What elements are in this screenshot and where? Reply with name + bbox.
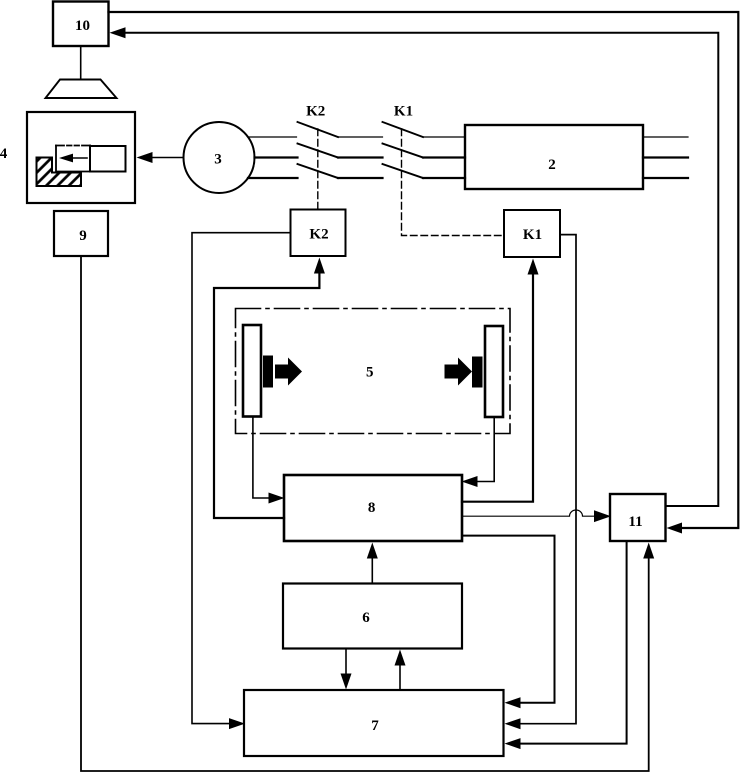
phase line 3 K2 to K1 bbox=[338, 177, 383, 179]
wire block9 to block11 bottom arrow bbox=[81, 256, 649, 771]
left pusher bar bbox=[263, 356, 273, 388]
svg-text:5: 5 bbox=[366, 365, 374, 381]
wire block8 to block7 right input 1 bbox=[462, 536, 555, 703]
phase line 2 motor to K2 bbox=[255, 156, 298, 158]
slide block with dashed top in block 4 bbox=[56, 146, 90, 172]
phase line 3 K1 to block2 bbox=[423, 177, 465, 179]
phase line 3 motor to K2 bbox=[248, 177, 298, 179]
wire block6 to block7 arrow down bbox=[345, 649, 347, 674]
phase line 2 K2 to K1 bbox=[338, 156, 383, 158]
svg-text:K1: K1 bbox=[523, 227, 542, 243]
coil K1 box bbox=[504, 210, 560, 257]
wire block10 output to block11 right input bbox=[109, 12, 739, 528]
wire block8 to coil K1 with arrow bbox=[462, 275, 533, 502]
block 11 bbox=[610, 494, 666, 541]
svg-text:2: 2 bbox=[548, 157, 556, 173]
svg-text:6: 6 bbox=[362, 610, 370, 626]
arrow inside slide block bbox=[71, 157, 87, 159]
hatched fixture in block 4 bbox=[37, 158, 82, 187]
block 7 bbox=[244, 690, 504, 756]
right clamp plate bbox=[485, 326, 503, 417]
block 9 bbox=[54, 211, 108, 256]
wire block11 to block7 right input 3 bbox=[521, 541, 627, 744]
sensor horn trapezoid bbox=[46, 80, 117, 99]
dash-dot workpiece frame 5 bbox=[236, 309, 511, 434]
wire motor3 to block4 with arrow bbox=[153, 157, 184, 159]
dashed link K1 switch to coil bbox=[402, 129, 505, 236]
left thick arrow bbox=[275, 358, 302, 386]
wire left plate to block8 with arrow bbox=[253, 417, 269, 498]
block 6 bbox=[283, 584, 462, 649]
wire right plate to block8 with arrow bbox=[478, 417, 495, 482]
block 8 bbox=[284, 475, 462, 541]
svg-text:4: 4 bbox=[0, 146, 8, 162]
wire block7 to block6 arrow up bbox=[399, 666, 401, 691]
contactor K1 blade 1 bbox=[383, 122, 424, 137]
contactor K2 blade 2 bbox=[298, 144, 339, 158]
block 2 bbox=[465, 125, 643, 189]
contactor K1 blade 2 bbox=[383, 144, 424, 158]
supply stub 1 right of block 2 bbox=[643, 136, 688, 138]
wire block6 to block8 arrow up bbox=[371, 558, 373, 584]
wire block10 to sensor horn bbox=[80, 46, 82, 80]
wire coil K2 to block7 left input bbox=[192, 233, 291, 724]
motor circle 3 bbox=[184, 122, 255, 193]
svg-text:10: 10 bbox=[75, 18, 90, 34]
phase line 2 K1 to block2 bbox=[423, 156, 465, 158]
contactor K2 blade 3 bbox=[298, 164, 339, 178]
svg-text:9: 9 bbox=[79, 228, 87, 244]
cylinder block in block 4 bbox=[90, 146, 126, 172]
svg-text:7: 7 bbox=[371, 718, 379, 734]
phase line 1 K2 to K1 bbox=[338, 136, 383, 138]
contactor K2 blade 1 bbox=[298, 122, 339, 137]
supply stub 2 right of block 2 bbox=[643, 156, 688, 158]
dashed link K2 switch to coil bbox=[317, 129, 319, 210]
supply stub 3 right of block 2 bbox=[643, 177, 688, 179]
block 10 bbox=[53, 2, 109, 47]
svg-text:K1: K1 bbox=[394, 104, 413, 120]
contactor K1 blade 3 bbox=[383, 164, 424, 178]
svg-text:8: 8 bbox=[368, 500, 376, 516]
wire block8 to block11 with hop and arrow bbox=[462, 510, 595, 516]
left clamp plate bbox=[243, 325, 261, 417]
phase line 1 K1 to block2 bbox=[423, 136, 465, 138]
wire coil K1 to block7 right input 2 bbox=[521, 235, 577, 724]
svg-text:K2: K2 bbox=[306, 104, 325, 120]
block 4 bbox=[27, 112, 135, 203]
svg-text:3: 3 bbox=[214, 152, 222, 168]
phase line 1 motor to K2 bbox=[248, 136, 297, 138]
wire block8 to coil K2 with arrow bbox=[214, 274, 319, 518]
right thick arrow bbox=[445, 358, 473, 386]
svg-text:K2: K2 bbox=[309, 227, 328, 243]
right pusher bar bbox=[472, 357, 483, 388]
wire block11 output to block10 input arrow bbox=[126, 33, 718, 506]
svg-text:11: 11 bbox=[628, 514, 642, 530]
coil K2 box bbox=[291, 210, 346, 257]
